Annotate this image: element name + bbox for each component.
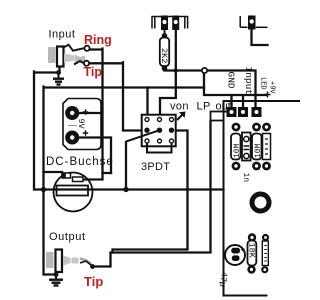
output jack barrel gray bbox=[46, 252, 54, 268]
resistor 18K body bbox=[248, 241, 257, 266]
input jack ring contact bbox=[64, 45, 86, 51]
wire top connector pad2 down to 3PDT row1-middle bbox=[160, 30, 178, 118]
3PDT row2 pins bbox=[144, 128, 174, 133]
3PDT bottom link bbox=[147, 143, 172, 153]
input jack barrel gray bbox=[48, 47, 56, 63]
wire 3PDT row1-left feed bbox=[146, 88, 148, 118]
divider tick bbox=[68, 125, 77, 127]
svg-text:2K2: 2K2 bbox=[159, 48, 169, 63]
PCB big hole pad bbox=[252, 194, 269, 211]
svg-text:+9V: +9V bbox=[268, 81, 276, 94]
top-right pad bbox=[248, 16, 256, 30]
svg-text:GND: GND bbox=[226, 72, 237, 89]
input jack body bbox=[57, 47, 64, 67]
svg-text:18K: 18K bbox=[246, 243, 256, 259]
PCB capacitor C1 1n body bbox=[242, 133, 251, 161]
node open circle bbox=[202, 68, 207, 73]
input jack Tip wire bbox=[88, 62, 145, 130]
svg-text:Output: Output bbox=[49, 231, 86, 243]
DC socket pin left bbox=[62, 173, 71, 178]
svg-text:LP: LP bbox=[197, 101, 211, 113]
output jack tip gray pieces bbox=[64, 256, 71, 266]
svg-text:LED: LED bbox=[259, 77, 267, 90]
wire DC minus bbox=[77, 138, 111, 174]
svg-text:10M: 10M bbox=[233, 143, 242, 158]
resistor 18K pads bbox=[247, 233, 256, 273]
wire 3PDT row2-right to output (bypass) bbox=[113, 131, 188, 253]
svg-text:Ring: Ring bbox=[84, 33, 112, 47]
3PDT toggle arrow bbox=[177, 112, 186, 121]
top connector pad 1 bbox=[161, 16, 168, 31]
PCB resistor R1 pads bbox=[232, 123, 241, 171]
3PDT row3 pins bbox=[145, 139, 174, 143]
top-right pad brackets bbox=[240, 16, 267, 27]
3PDT lever wire to ground rail bbox=[123, 130, 159, 192]
battery pad minus bbox=[65, 131, 79, 145]
3PDT row1 pins bbox=[145, 118, 174, 122]
wire top-right pad elbow to +9V pad bbox=[252, 30, 268, 46]
3PDT body bbox=[142, 115, 176, 147]
battery pad plus bbox=[65, 106, 79, 120]
svg-text:Input: Input bbox=[49, 29, 76, 41]
output jack tip contact bbox=[80, 261, 91, 265]
DC socket sleeve bar bbox=[57, 186, 89, 196]
PCB resistor R1 10M body bbox=[231, 134, 241, 160]
node junction dot left rail bbox=[41, 187, 46, 192]
ground symbol input bbox=[53, 73, 64, 85]
top connector frame bbox=[152, 16, 188, 29]
resistor 2K2 pad bottom bbox=[162, 66, 168, 72]
svg-text:9V: 9V bbox=[76, 119, 86, 130]
wire battery row (y=189.5) bbox=[44, 188, 224, 190]
svg-text:47µ: 47µ bbox=[217, 271, 229, 287]
wire LP out down to output tip bbox=[95, 121, 211, 267]
output jack sleeve dot bbox=[54, 272, 59, 277]
svg-text:Tip: Tip bbox=[84, 65, 103, 79]
plus sign top bbox=[83, 109, 88, 114]
output jack tip terminal bbox=[90, 264, 95, 269]
wire pad1 to resistor 2K2 bbox=[164, 30, 166, 36]
svg-text:1n: 1n bbox=[241, 173, 250, 183]
input jack tip gray pieces bbox=[64, 54, 74, 63]
PCB component edge partial bbox=[262, 123, 271, 171]
ground symbol output bbox=[49, 275, 63, 286]
input jack sleeve junction dot bbox=[56, 70, 61, 75]
PCB pad GND bbox=[227, 107, 237, 117]
resistor 2K2 pad top bbox=[162, 33, 168, 39]
svg-text:10M: 10M bbox=[254, 143, 263, 158]
svg-text:Tip: Tip bbox=[84, 274, 103, 289]
input jack tip terminal bbox=[84, 61, 89, 66]
plus sign bottom bbox=[83, 130, 88, 135]
resistor 2K2 body bbox=[160, 38, 169, 67]
input jack Ring wire bbox=[77, 49, 103, 180]
DC socket circle bbox=[54, 173, 93, 212]
svg-text:von: von bbox=[170, 101, 189, 113]
input jack ring terminal bbox=[84, 46, 89, 51]
input jack tip contact bbox=[74, 61, 84, 65]
PCB pad Input bbox=[238, 107, 248, 117]
DC socket pin center bbox=[73, 177, 84, 182]
PCB pad spare bbox=[252, 107, 262, 117]
svg-text:3PDT: 3PDT bbox=[141, 161, 170, 173]
PCB resistor R2 10M body bbox=[252, 134, 262, 160]
output jack body bbox=[56, 250, 63, 273]
svg-text:DC-Buchse: DC-Buchse bbox=[46, 156, 114, 168]
wire input sleeve to left rail bbox=[34, 72, 59, 190]
wire DC jack pin (y=172) bbox=[44, 172, 112, 173]
LP out terminal rect bbox=[211, 112, 224, 121]
PCB outline bbox=[224, 101, 301, 296]
svg-text:Input: Input bbox=[243, 67, 254, 96]
wire node down to pads bus bbox=[204, 74, 266, 108]
component D partial right bbox=[261, 234, 269, 273]
wire 2K2 to PCB input pad (y=70.5) bbox=[165, 71, 256, 108]
plus mark 9V entry bbox=[265, 92, 271, 98]
wire ground rail (left, second vertical) bbox=[44, 87, 205, 275]
capacitor 47u circle bbox=[225, 245, 245, 265]
top connector pad 2 bbox=[172, 16, 179, 31]
battery holder outline bbox=[63, 99, 101, 150]
PCB resistor R2 pads bbox=[252, 123, 261, 171]
